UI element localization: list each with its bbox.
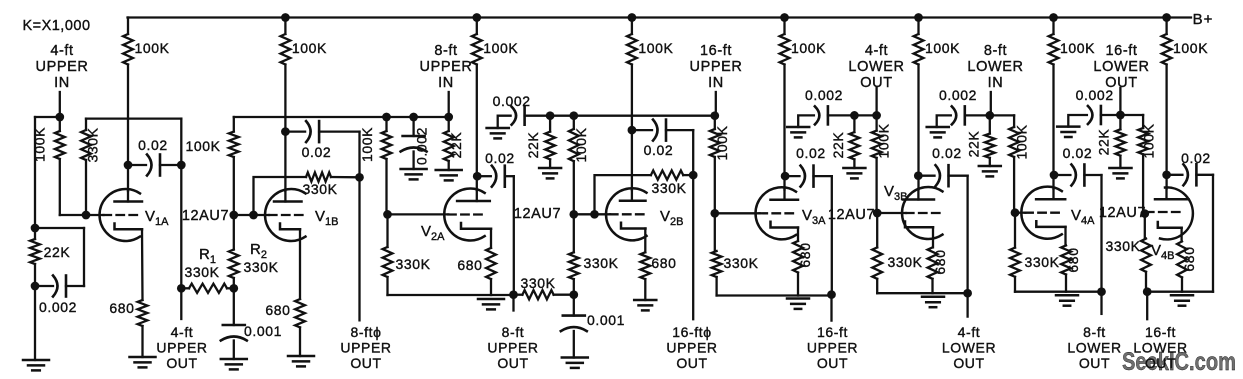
- svg-text:680: 680: [109, 300, 134, 316]
- wire 22K bypass loop top: [35, 227, 84, 229]
- svg-text:B+: B+: [1193, 11, 1214, 28]
- junction bus4/22K input: [985, 111, 994, 120]
- svg-text:22K: 22K: [44, 244, 71, 260]
- svg-text:V1B: V1B: [315, 208, 338, 228]
- svg-text:100K: 100K: [1173, 40, 1208, 56]
- resistor 22K V2A input: [448, 117, 450, 131]
- svg-text:680: 680: [1065, 247, 1081, 272]
- wire cathode V4B: [1180, 228, 1182, 242]
- svg-text:0.02: 0.02: [644, 142, 674, 158]
- junction rail/V1B: [281, 13, 290, 22]
- wire rail to 100K V3A: [783, 18, 785, 35]
- svg-text:LOWER: LOWER: [942, 340, 996, 356]
- junction grid V4A: [1011, 208, 1020, 217]
- wire output 16-ft UPPER OUT: [830, 295, 832, 321]
- svg-text:100K: 100K: [1141, 123, 1157, 158]
- svg-text:IN: IN: [708, 75, 724, 91]
- wire rail to 100K V4B: [1165, 18, 1167, 35]
- junction grid V1A: [82, 211, 91, 220]
- junction plate node V1A: [124, 161, 133, 170]
- resistor 330K V3B grid-ground: [876, 213, 878, 247]
- wire cathode V2B: [644, 229, 646, 253]
- svg-text:0.02: 0.02: [1063, 145, 1093, 161]
- resistor 100K plate V4B: [1162, 34, 1172, 65]
- junction grid V2A: [383, 210, 392, 219]
- resistor R2 330K V2B: [573, 214, 575, 252]
- wire bus1 corner to 100K: [233, 117, 235, 132]
- svg-text:100K: 100K: [573, 127, 589, 162]
- junction rail/V3B: [914, 13, 923, 22]
- junction bus3/100K V3B: [872, 111, 881, 120]
- svg-text:V2B: V2B: [660, 208, 683, 228]
- wire plate feed V1B: [284, 65, 286, 192]
- svg-text:0.001: 0.001: [587, 312, 625, 328]
- capacitor 0.02 V1A: [128, 164, 146, 166]
- wire 8-ft LOWER IN: [990, 92, 992, 115]
- bus4 wire: [965, 114, 1014, 116]
- svg-text:K=X1,000: K=X1,000: [22, 18, 90, 34]
- svg-text:UPPER: UPPER: [690, 59, 743, 75]
- svg-text:22K: 22K: [1096, 129, 1112, 156]
- junction coupling node V2B: [689, 171, 698, 180]
- ground 22K V3B input: [843, 167, 865, 170]
- capacitor 0.002 V2A input: [412, 117, 414, 136]
- wire 22K bypass loop right: [83, 228, 85, 286]
- wire input node left: [35, 116, 60, 118]
- svg-text:12AU7: 12AU7: [514, 206, 561, 222]
- bus5 wire: [1101, 114, 1143, 116]
- svg-text:100K: 100K: [292, 40, 327, 56]
- wire to ground: [34, 286, 36, 360]
- wire output 4-ft LOWER OUT: [966, 293, 968, 316]
- capacitor 0.02 V4B: [1167, 174, 1183, 176]
- svg-text:100K: 100K: [925, 40, 960, 56]
- svg-text:100K: 100K: [876, 123, 892, 158]
- svg-text:IN: IN: [438, 75, 454, 91]
- resistor 22K V1A input: [34, 228, 36, 239]
- wire grid lead V3B: [877, 212, 906, 214]
- svg-text:LOWER: LOWER: [1093, 59, 1149, 75]
- resistor 100K V2A grid: [385, 117, 387, 131]
- junction out node V4B: [1143, 287, 1152, 296]
- junction bus5/22K: [1116, 111, 1125, 120]
- svg-text:LOWER: LOWER: [1067, 340, 1121, 356]
- ground 0.002 V2A input: [401, 168, 427, 171]
- ground 0.002 V4B input: [1057, 125, 1079, 128]
- svg-text:100K: 100K: [714, 125, 730, 160]
- wire plate feed V2B: [631, 65, 633, 191]
- svg-text:UPPER: UPPER: [156, 340, 207, 356]
- tube V4B: [1160, 187, 1193, 239]
- wire grid lead V4A: [1015, 212, 1025, 214]
- junction out node V2A: [509, 290, 518, 299]
- capacitor 0.02 V2B: [632, 129, 652, 131]
- svg-text:330K: 330K: [85, 127, 101, 162]
- svg-text:LOWER: LOWER: [848, 59, 904, 75]
- wire output 16-ft LOWER OUT: [1146, 292, 1148, 320]
- ground V3A cathode: [787, 297, 809, 300]
- ground V1B cathode: [288, 355, 314, 358]
- ground 0.002 V3B input: [787, 126, 809, 129]
- junction grid V3A: [710, 209, 719, 218]
- wire coupling down V3A: [831, 176, 833, 295]
- capacitor 0.001 V1B: [223, 324, 245, 327]
- tube V2B: [606, 188, 646, 240]
- resistor 680 V4A cathode: [1061, 245, 1071, 274]
- junction bus3/22K: [850, 111, 859, 120]
- wire 0.001 V2B down: [573, 295, 575, 316]
- capacitor 0.02 V4A: [1054, 174, 1070, 176]
- svg-text:0.02: 0.02: [1181, 150, 1211, 166]
- tube V3B: [902, 187, 942, 239]
- wire rail to 100K V1A: [127, 18, 129, 35]
- resistor 680 V2A cathode: [486, 248, 496, 279]
- wire grid line V2B: [574, 213, 610, 215]
- wire 4-ft LOWER OUT tap: [875, 88, 877, 115]
- bus3 wire: [828, 114, 877, 116]
- capacitor 0.002 V4A input: [937, 115, 951, 127]
- svg-text:330K: 330K: [243, 259, 278, 275]
- resistor 330K V2A-V2B link: [514, 294, 523, 296]
- junction bus1/22K input: [444, 113, 453, 122]
- wire grid lead V2A: [388, 213, 449, 215]
- resistor 22K V4B input: [1119, 115, 1121, 129]
- svg-text:22K: 22K: [830, 132, 846, 159]
- wire coupling down V4B: [1212, 175, 1214, 292]
- svg-text:V2A: V2A: [421, 223, 445, 243]
- wire V2A ground bus: [388, 294, 514, 296]
- junction bus1/0.002: [409, 113, 418, 122]
- resistor 22K V2B input: [549, 116, 551, 132]
- resistor 100K plate V3A: [780, 34, 790, 65]
- junction out node V3A: [827, 290, 836, 299]
- svg-text:OUT: OUT: [817, 355, 848, 371]
- svg-text:4-ft: 4-ft: [865, 43, 888, 59]
- wire coupling down V3B: [966, 176, 968, 294]
- svg-text:UPPER: UPPER: [807, 340, 858, 356]
- ground V4A cathode: [1056, 294, 1078, 297]
- junction 22K bottom: [31, 282, 40, 291]
- wire R2 node down: [233, 288, 235, 325]
- svg-text:330K: 330K: [395, 256, 430, 272]
- wire 8-ft UPPER IN: [448, 92, 450, 117]
- svg-text:12AU7: 12AU7: [182, 208, 229, 224]
- wire output 16-ft-phi UPPER OUT: [692, 175, 694, 319]
- wire 4-ft UPPER IN: [59, 92, 61, 117]
- wire coupling down V2B: [692, 130, 694, 175]
- junction 22K top: [31, 224, 40, 233]
- junction bus2/100K V3A: [710, 111, 719, 120]
- wire plate feed V1A: [127, 65, 129, 192]
- svg-text:22K: 22K: [525, 132, 541, 159]
- svg-text:0.001: 0.001: [244, 323, 282, 339]
- ground V4B cathode: [1171, 294, 1193, 297]
- svg-text:8-ftϕ: 8-ftϕ: [350, 324, 381, 340]
- wire plate feed V2A: [476, 65, 478, 191]
- wire rail to 100K V4A: [1052, 18, 1054, 35]
- junction grid V1B a: [229, 211, 238, 220]
- wire V3A ground bus: [717, 294, 832, 296]
- svg-text:0.02: 0.02: [932, 145, 962, 161]
- svg-text:OUT: OUT: [676, 355, 707, 371]
- resistor R1 330K: [181, 287, 189, 289]
- tube V3A: [756, 187, 796, 239]
- junction grid V4B: [1140, 209, 1149, 218]
- svg-text:UPPER: UPPER: [340, 340, 391, 356]
- wire coupling node down to R1: [180, 165, 182, 288]
- svg-text:0.02: 0.02: [485, 150, 515, 166]
- resistor R2 330K: [233, 215, 235, 250]
- ground V3B cathode: [922, 296, 944, 299]
- capacitor 0.02 V3B: [918, 175, 934, 177]
- svg-text:8-ft: 8-ft: [434, 43, 457, 59]
- junction grid V2B b: [590, 210, 599, 219]
- resistor 330K V4A grid-ground: [1014, 213, 1016, 248]
- svg-text:100K: 100K: [483, 40, 518, 56]
- svg-text:680: 680: [265, 302, 290, 318]
- svg-text:IN: IN: [54, 75, 70, 91]
- svg-text:0.002: 0.002: [805, 87, 843, 103]
- tube V2A: [444, 188, 484, 240]
- junction input node V1A: [55, 113, 64, 122]
- ground 22K V2B input: [539, 167, 561, 170]
- wire output 4-ft UPPER OUT: [180, 288, 182, 319]
- wire coupling down V2A: [513, 176, 515, 295]
- resistor 22K V3B input: [853, 115, 855, 132]
- junction plate node V3A: [781, 172, 790, 181]
- svg-text:OUT: OUT: [953, 355, 984, 371]
- junction bus2/22K: [546, 111, 555, 120]
- junction rail/V2B: [628, 13, 637, 22]
- svg-text:680: 680: [651, 255, 676, 271]
- capacitor 0.02 V1B: [285, 130, 305, 132]
- junction R1 left: [177, 284, 186, 293]
- resistor 330K V4B grid-ground: [1144, 214, 1146, 239]
- wire V3B ground bus: [877, 292, 967, 294]
- capacitor 0.02 V2A: [477, 175, 491, 177]
- svg-text:680: 680: [1181, 246, 1197, 271]
- resistor 100K V3B grid: [875, 115, 877, 130]
- svg-text:OUT: OUT: [1145, 355, 1176, 371]
- svg-text:0.002: 0.002: [414, 127, 430, 165]
- junction rail/V4A: [1049, 13, 1058, 22]
- svg-text:0.002: 0.002: [493, 93, 531, 109]
- svg-text:OUT: OUT: [350, 355, 381, 371]
- svg-text:330K: 330K: [723, 255, 758, 271]
- junction coupling node V1A: [177, 161, 186, 170]
- tube V4A: [1021, 187, 1061, 239]
- resistor 680 V1B cathode: [295, 299, 305, 327]
- tube V1A: [100, 189, 140, 241]
- svg-text:V1A: V1A: [145, 208, 169, 228]
- junction bus1/100K V2A: [382, 113, 391, 122]
- svg-text:OUT: OUT: [1079, 355, 1110, 371]
- resistor 330K V1B feedback: [254, 177, 307, 215]
- svg-text:330K: 330K: [184, 264, 219, 280]
- svg-text:4-ft: 4-ft: [50, 43, 73, 59]
- resistor 100K V4B grid: [1142, 115, 1144, 128]
- resistor 680 V4B cathode: [1177, 241, 1187, 277]
- resistor 100K V4A grid: [1013, 115, 1015, 127]
- svg-text:330K: 330K: [583, 255, 618, 271]
- svg-text:16-ft: 16-ft: [1105, 43, 1137, 59]
- svg-text:0.02: 0.02: [138, 137, 168, 153]
- capacitor 0.002 V2B input: [498, 116, 511, 128]
- junction grid V2B a: [569, 210, 578, 219]
- junction out node V3B: [963, 289, 972, 298]
- svg-text:0.002: 0.002: [39, 299, 77, 315]
- resistor 100K plate V4A: [1049, 34, 1059, 65]
- svg-text:100K: 100K: [32, 127, 48, 162]
- junction R1/R2 node: [229, 284, 238, 293]
- wire plate feed V3B: [917, 65, 919, 190]
- svg-text:330K: 330K: [1105, 238, 1140, 254]
- resistor 680 V1A cathode: [138, 300, 148, 326]
- resistor 680 V2B cathode: [640, 252, 650, 279]
- svg-text:16-ft: 16-ft: [817, 324, 848, 340]
- wire cathode V3A: [797, 228, 799, 242]
- B+ rail: [128, 16, 1192, 18]
- wire plate feed V4B: [1165, 65, 1167, 189]
- wire rail to 100K V2B: [631, 18, 633, 35]
- resistor 330K V1A feedback: [85, 119, 87, 130]
- capacitor 0.002 V1A input: [35, 285, 53, 287]
- svg-text:UPPER: UPPER: [36, 59, 89, 75]
- junction plate node V3B: [914, 171, 923, 180]
- resistor 680 V3B cathode: [928, 247, 938, 278]
- svg-text:16-ft: 16-ft: [700, 43, 732, 59]
- svg-text:680: 680: [932, 249, 948, 274]
- junction plate node V2A: [473, 172, 482, 181]
- wire rail to 100K V2A: [476, 18, 478, 35]
- wire cathode V1A: [141, 229, 144, 300]
- wire output 8-ft-phi UPPER OUT: [358, 177, 360, 320]
- wire output 8-ft LOWER OUT: [1100, 292, 1102, 314]
- svg-text:LOWER: LOWER: [967, 59, 1023, 75]
- capacitor 0.02 V3A: [785, 175, 799, 177]
- ground V2A cathode: [478, 298, 504, 301]
- ground V1A cathode: [130, 356, 156, 359]
- svg-text:12AU7: 12AU7: [1099, 205, 1146, 221]
- wire cathode V1B: [299, 229, 301, 299]
- wire V4A ground bus: [1015, 291, 1102, 293]
- junction link/0.001 node: [569, 290, 578, 299]
- svg-text:0.002: 0.002: [939, 87, 977, 103]
- resistor 22K V4A input: [989, 115, 991, 133]
- svg-text:100K: 100K: [134, 40, 169, 56]
- wire left branch down: [34, 117, 36, 228]
- wire 100K bottom to grid: [60, 214, 104, 216]
- ground V1A input: [23, 359, 49, 362]
- ground 22K V2A input: [436, 169, 462, 172]
- ground V2B cathode: [634, 299, 656, 302]
- ground 0.002 V4A input: [927, 126, 949, 129]
- svg-text:12AU7: 12AU7: [828, 207, 875, 223]
- resistor 330K V2B feedback: [595, 175, 651, 214]
- svg-text:330K: 330K: [302, 181, 337, 197]
- capacitor 0.002 V4B input: [1068, 115, 1087, 127]
- wire plate feed V4A: [1052, 65, 1054, 189]
- resistor 330K V2A grid-ground: [386, 214, 388, 247]
- resistor 100K V2B grid: [573, 116, 575, 129]
- resistor 100K plate V1B: [281, 34, 291, 65]
- resistor 100K V3A grid: [714, 116, 716, 129]
- resistor 100K plate V3B: [914, 34, 924, 65]
- resistor 100K plate V2B: [627, 34, 637, 65]
- ground 0.001 V1B: [221, 358, 247, 361]
- svg-text:100K: 100K: [638, 40, 673, 56]
- resistor 100K V1A input: [59, 117, 61, 131]
- junction plate node V4A: [1050, 171, 1059, 180]
- svg-text:R1: R1: [199, 246, 216, 266]
- svg-text:22K: 22K: [448, 132, 464, 159]
- wire grid lead V3A: [715, 212, 760, 214]
- svg-text:UPPER: UPPER: [666, 340, 717, 356]
- ground 0.002 V2B input: [487, 127, 509, 130]
- junction plate node V4B: [1162, 170, 1171, 179]
- bus2 wire: [525, 115, 715, 117]
- svg-text:4-ft: 4-ft: [171, 324, 194, 340]
- resistor 100K plate V2A: [472, 34, 482, 65]
- svg-text:IN: IN: [988, 75, 1004, 91]
- capacitor 0.001 V2B: [563, 314, 585, 317]
- svg-text:100K: 100K: [1060, 40, 1095, 56]
- svg-text:16-ftϕ: 16-ftϕ: [672, 324, 711, 340]
- svg-text:0.02: 0.02: [302, 144, 332, 160]
- svg-text:680: 680: [797, 242, 813, 267]
- resistor 100K plate V1A: [123, 34, 133, 65]
- junction grid V3B: [873, 209, 882, 218]
- wire 16-ft LOWER OUT tap: [1119, 88, 1121, 115]
- wire coupling down V4A: [1100, 175, 1102, 292]
- svg-text:V3B: V3B: [884, 183, 907, 203]
- wire output 8-ft UPPER OUT: [512, 295, 514, 311]
- svg-text:8-ft: 8-ft: [502, 324, 525, 340]
- junction coupling node V1B: [355, 173, 364, 182]
- svg-text:V4B: V4B: [1151, 242, 1174, 262]
- svg-text:V4A: V4A: [1071, 207, 1095, 227]
- svg-text:22K: 22K: [966, 131, 982, 158]
- wire 330K top segment: [86, 117, 181, 119]
- junction rail/V3A: [780, 13, 789, 22]
- junction plate node V2B: [628, 126, 637, 135]
- resistor 680 V3A cathode: [793, 241, 803, 273]
- svg-text:100K: 100K: [185, 138, 220, 154]
- ground 22K V4B input: [1109, 167, 1131, 170]
- junction plate node V1B: [281, 127, 290, 136]
- svg-text:680: 680: [457, 257, 482, 273]
- tube V1B: [265, 189, 305, 241]
- junction out node V4A: [1097, 287, 1106, 296]
- svg-text:4-ft: 4-ft: [958, 324, 981, 340]
- svg-text:V3A: V3A: [802, 207, 826, 227]
- svg-text:16-ft: 16-ft: [1145, 324, 1176, 340]
- junction rail/V4B: [1162, 13, 1171, 22]
- svg-text:100K: 100K: [1014, 124, 1030, 159]
- svg-text:OUT: OUT: [497, 355, 528, 371]
- resistor 100K V1B grid: [229, 132, 239, 157]
- svg-text:UPPER: UPPER: [487, 340, 538, 356]
- wire cathode V3B: [932, 227, 934, 247]
- junction grid V1B b: [249, 211, 258, 220]
- svg-text:330K: 330K: [1024, 254, 1059, 270]
- svg-text:LOWER: LOWER: [1133, 340, 1187, 356]
- svg-text:330K: 330K: [651, 180, 686, 196]
- svg-text:OUT: OUT: [166, 355, 197, 371]
- resistor 330K V3A grid-ground: [714, 213, 716, 251]
- wire grid line V1B: [234, 214, 269, 216]
- svg-text:100K: 100K: [791, 40, 826, 56]
